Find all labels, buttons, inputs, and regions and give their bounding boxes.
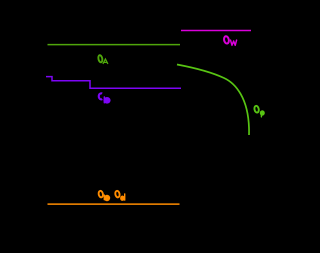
series O_A (green horizontal line) — [48, 44, 181, 46]
label O_p — [254, 105, 265, 117]
series O_p O_d (orange horizontal line) — [48, 203, 180, 205]
series O_w (magenta horizontal line) — [181, 30, 251, 32]
label O_A — [98, 55, 108, 64]
label C_p — [99, 93, 111, 103]
series C_p (purple step line) — [46, 77, 181, 89]
series O_p (green decay curve) — [177, 65, 249, 136]
label O_w — [223, 36, 236, 46]
label O_p O_d — [98, 190, 125, 201]
